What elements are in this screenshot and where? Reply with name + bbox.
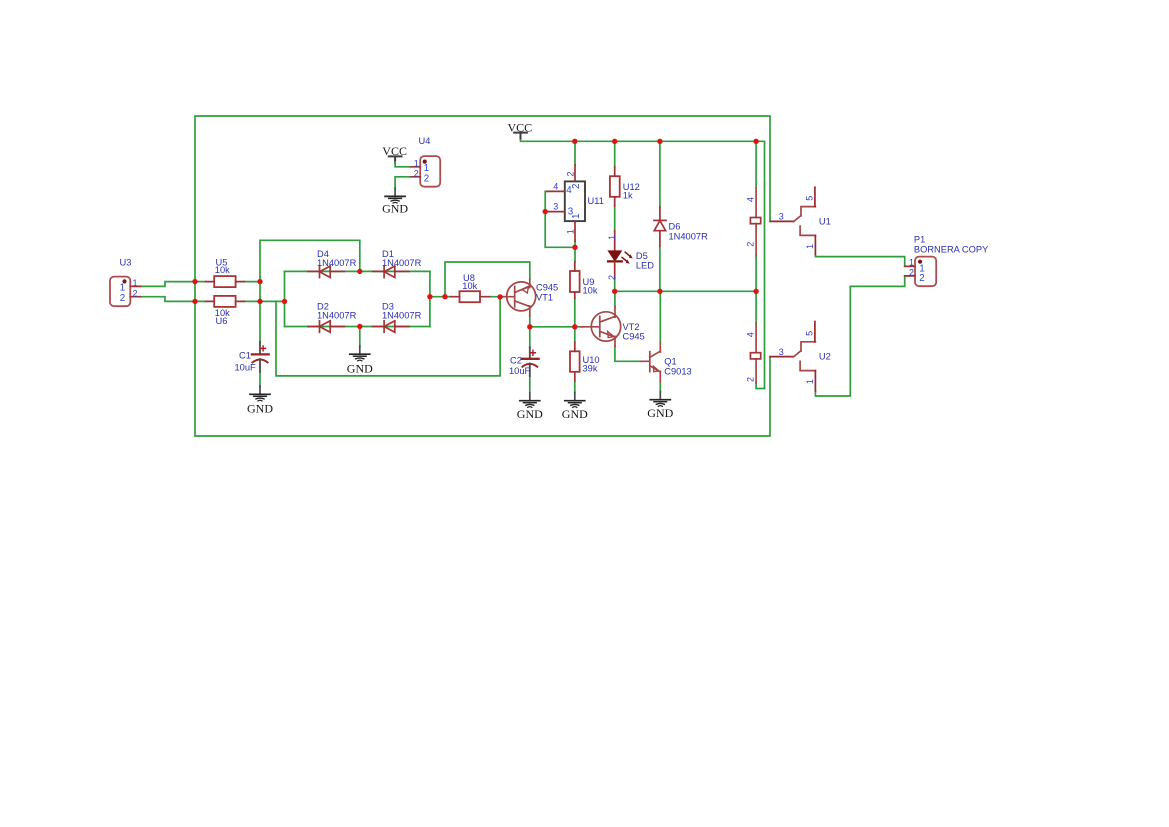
capacitor C1: [235, 342, 269, 372]
svg-text:2: 2: [607, 275, 617, 280]
diode D6: [654, 207, 666, 246]
svg-text:VCC: VCC: [508, 121, 533, 135]
junction VCC/coil: [753, 139, 758, 144]
svg-text:5: 5: [804, 331, 814, 336]
wire LED to rail2: [614, 279, 616, 292]
junction U8 in: [442, 294, 447, 299]
junction VCC/D6: [657, 139, 662, 144]
svg-text:2: 2: [133, 288, 138, 298]
connector P1: [905, 257, 937, 287]
ground (U10): [562, 393, 588, 421]
junction VCC/U12: [612, 139, 617, 144]
junction U5 out: [257, 279, 262, 284]
wire bridge mid bottom to GND: [359, 327, 361, 347]
ground (C2): [517, 393, 543, 421]
wire VT1 collector down to rail: [530, 316, 575, 327]
resistor U10: [570, 342, 600, 381]
svg-text:1N4007R: 1N4007R: [317, 258, 357, 268]
svg-text:GND: GND: [247, 402, 273, 416]
svg-text:10k: 10k: [462, 281, 477, 291]
wire U3 pin2 to U6: [141, 297, 206, 302]
ground (Q1): [647, 392, 673, 421]
junction U11 pin3: [543, 209, 548, 214]
wire bridge bottom row: [285, 326, 430, 328]
relay coil 1 (U1): [746, 188, 761, 255]
connector U3: [110, 277, 141, 307]
transistor Q1 (C9013): [641, 343, 661, 382]
wire rail2 horizontal: [615, 290, 756, 292]
wire vertical node at x=260: [260, 240, 360, 342]
transistor VT2 (C945): [581, 307, 621, 347]
svg-text:U2: U2: [819, 352, 831, 362]
svg-text:10k: 10k: [215, 265, 230, 275]
svg-text:VT2: VT2: [623, 322, 640, 332]
wire bridge left vertical: [284, 271, 286, 326]
svg-text:1k: 1k: [623, 190, 633, 200]
svg-text:BORNERA COPY: BORNERA COPY: [914, 244, 988, 254]
svg-text:Q1: Q1: [664, 356, 676, 366]
svg-text:1: 1: [607, 235, 617, 240]
junction border/U3 pin1: [192, 279, 197, 284]
wire U11 left loop pins 4,3 to pin1: [545, 191, 575, 247]
junction VT1 collector: [527, 324, 532, 329]
svg-text:D6: D6: [669, 222, 681, 232]
wire U11 pin2 to VCC rail: [574, 141, 576, 164]
svg-text:C9013: C9013: [664, 366, 691, 376]
ground (C1): [247, 386, 273, 415]
wire branch x=276 down to y=376 across to x=500: [276, 297, 500, 376]
wire U3 pin1 to U5: [141, 282, 206, 287]
svg-text:GND: GND: [382, 202, 408, 216]
wire emitter rail to VT2 base: [575, 326, 584, 328]
svg-text:10uF: 10uF: [509, 366, 531, 376]
svg-text:VT1: VT1: [536, 292, 553, 302]
wire VT2 emitter to Q1 base: [615, 346, 641, 361]
wire U11 pin1 to U9: [574, 241, 576, 262]
svg-text:U3: U3: [120, 258, 132, 268]
connector U4: [410, 156, 441, 187]
svg-text:2: 2: [746, 242, 756, 247]
diode D4: [308, 266, 344, 278]
svg-text:1: 1: [566, 229, 576, 234]
junction U11 pin1: [572, 245, 577, 250]
junction U6 out: [257, 299, 262, 304]
svg-text:GND: GND: [347, 361, 373, 375]
LED D5: [607, 231, 654, 280]
svg-text:2: 2: [919, 273, 924, 284]
svg-text:2: 2: [424, 174, 429, 185]
svg-text:1N4007R: 1N4007R: [382, 258, 422, 268]
wire U12 to LED: [614, 206, 616, 231]
ground (U4): [382, 188, 408, 216]
svg-text:LED: LED: [636, 261, 654, 271]
relay switch U2: [770, 322, 815, 391]
svg-text:U11: U11: [588, 196, 604, 206]
junction bridge top: [357, 269, 362, 274]
wire U1 pin1 to P1 pin1: [815, 255, 910, 267]
wire VT2 collector up: [614, 291, 616, 306]
svg-text:10k: 10k: [583, 285, 598, 295]
svg-text:1: 1: [805, 379, 815, 384]
relay switch U1: [770, 187, 815, 254]
junction LED/rail: [612, 289, 617, 294]
wire emitter rail to U10: [574, 327, 576, 343]
svg-text:4: 4: [746, 332, 756, 337]
junction U9/U10: [572, 324, 577, 329]
wire bridge right vertical: [429, 271, 431, 326]
wire D6 bottom: [659, 246, 661, 291]
svg-text:1: 1: [805, 244, 815, 249]
junction border/U3 pin2: [192, 299, 197, 304]
wire U10 to GND: [574, 381, 576, 393]
svg-text:10uF: 10uF: [235, 363, 257, 373]
svg-text:C1: C1: [239, 350, 251, 360]
svg-text:5: 5: [804, 196, 814, 201]
svg-text:U1: U1: [819, 216, 831, 226]
junction bridge left: [282, 299, 287, 304]
wire D6 top: [659, 141, 661, 207]
wire U6 out: [245, 300, 285, 302]
ground (bridge): [347, 346, 373, 375]
svg-text:1: 1: [571, 214, 582, 219]
junction D6/Q1: [657, 289, 662, 294]
svg-text:C945: C945: [623, 332, 645, 342]
wire VCC rail top: [521, 138, 765, 389]
svg-text:D5: D5: [636, 251, 648, 261]
wire U12 top: [614, 141, 616, 167]
svg-text:1: 1: [909, 258, 914, 268]
svg-text:1N4007R: 1N4007R: [669, 232, 709, 242]
junction bridge right: [427, 294, 432, 299]
svg-text:1N4007R: 1N4007R: [382, 310, 422, 320]
wire Q1 emitter to GND: [659, 382, 661, 392]
node VCC power symbol U4: [382, 144, 407, 162]
svg-text:U4: U4: [419, 136, 431, 146]
svg-text:3: 3: [779, 212, 784, 222]
svg-text:3: 3: [553, 202, 558, 212]
junction bridge bottom: [357, 324, 362, 329]
svg-text:2: 2: [571, 184, 582, 189]
svg-text:P1: P1: [914, 235, 925, 245]
wire C2 column: [529, 327, 531, 347]
svg-text:GND: GND: [517, 407, 543, 421]
resistor U5: [206, 257, 245, 287]
wire big loop border: [195, 116, 770, 436]
wire bridge top row: [285, 270, 430, 272]
wire U2 pin1 to P1 pin2: [815, 276, 910, 396]
wire Q1 collector up to rail2: [659, 291, 661, 342]
svg-text:4: 4: [746, 197, 756, 202]
resistor U12: [610, 167, 640, 206]
svg-text:1: 1: [414, 158, 419, 168]
svg-text:GND: GND: [562, 407, 588, 421]
wire C1 column: [259, 341, 261, 343]
svg-text:2: 2: [120, 293, 125, 304]
svg-text:U6: U6: [216, 316, 228, 326]
node VCC power symbol left: [508, 121, 533, 139]
wire bridge out to U8: [430, 296, 451, 298]
transistor VT1 (C945): [501, 279, 536, 316]
wire U5 out: [245, 281, 261, 283]
diode D1: [373, 266, 410, 278]
svg-text:4: 4: [553, 182, 558, 192]
svg-text:C2: C2: [510, 355, 522, 365]
svg-text:VCC: VCC: [382, 144, 407, 158]
diode D3: [373, 321, 410, 333]
wire relay coil column: [756, 141, 764, 388]
svg-text:2: 2: [909, 267, 914, 277]
wire feedback loop to VT1 emitter: [445, 262, 530, 297]
IC U11: [547, 165, 585, 242]
svg-text:1: 1: [133, 278, 138, 288]
relay coil 2 (U2): [746, 323, 761, 383]
wire U4 pin2 to GND: [395, 177, 410, 189]
wire U8 out to VT1 base: [490, 296, 507, 298]
wire U4 pin1 to VCC: [395, 162, 410, 167]
junction VCC/U11: [572, 139, 577, 144]
svg-text:2: 2: [414, 169, 419, 179]
junction coil mid: [753, 289, 758, 294]
svg-text:39k: 39k: [583, 364, 598, 374]
svg-text:GND: GND: [647, 406, 673, 420]
junction U8 out: [497, 294, 502, 299]
resistor U8: [451, 273, 490, 302]
wire U9 to emitter rail: [574, 298, 576, 327]
resistor U9: [570, 262, 598, 298]
svg-text:C945: C945: [536, 283, 558, 293]
svg-text:2: 2: [746, 377, 756, 382]
diode D2: [308, 321, 344, 333]
capacitor C2: [509, 347, 539, 376]
resistor U6: [206, 296, 245, 326]
svg-text:3: 3: [779, 347, 784, 357]
svg-text:2: 2: [566, 171, 576, 176]
svg-text:1N4007R: 1N4007R: [317, 310, 357, 320]
